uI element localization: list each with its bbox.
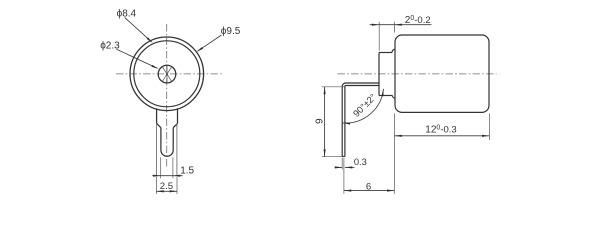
pin rolled section with rounded end: [161, 128, 173, 157]
angle arc 90 deg: [343, 89, 384, 123]
dim 9 line: [324, 87, 326, 157]
fillet neck top to cylinder face: [392, 49, 395, 52]
cylinder body (12 long): [395, 35, 489, 112]
inner circle (dia 8.4): [134, 41, 200, 107]
dim 6 extension line (left, from leg bottom): [343, 158, 345, 194]
outer circle (body, dia 9.5): [130, 37, 204, 111]
dim 2 -0.2 line: [370, 24, 432, 26]
horizontal centerline of front view: [116, 73, 224, 75]
dim 0.3 arrows: [335, 166, 343, 168]
leader dia 8.4: [125, 18, 152, 42]
boss spokes: [166, 73, 168, 75]
pin taper chamfers: [157, 123, 161, 127]
dim 2.5 extension lines: [155, 177, 157, 194]
dim 2 -0.2 extension lines: [378, 22, 380, 51]
svg-text:ϕ8.4: ϕ8.4: [117, 9, 137, 20]
dim 1.5 line: [152, 175, 182, 177]
svg-text:1.5: 1.5: [180, 165, 194, 176]
dim 9 extension lines: [322, 86, 345, 88]
dim 0.3 extension line: [341, 158, 343, 170]
dim 12 -0.3 line: [394, 135, 489, 137]
svg-text:0.3: 0.3: [354, 157, 367, 167]
svg-text:2.5: 2.5: [160, 181, 173, 192]
horizontal centerline of side view: [338, 73, 497, 75]
svg-text:ϕ9.5: ϕ9.5: [221, 26, 241, 37]
svg-text:9: 9: [314, 118, 325, 124]
svg-text:120-0.3: 120-0.3: [425, 125, 456, 136]
vertical centerline of front view: [166, 24, 168, 168]
center boss circle (dia 2.3): [158, 65, 176, 83]
dim 1.5 extension lines: [160, 158, 162, 179]
pin sleeve outline (thin): [157, 124, 177, 176]
dim 12 -0.3 extension lines: [393, 114, 395, 194]
terminal pin stub (wide part at body): [157, 108, 178, 156]
bent terminal bracket: [342, 83, 379, 157]
leader dia 2.3: [117, 49, 158, 68]
svg-text:6: 6: [366, 182, 371, 193]
neck (2 wide): [379, 49, 395, 98]
svg-text:ϕ2.3: ϕ2.3: [100, 40, 120, 51]
leader dia 9.5: [198, 35, 222, 51]
fillet neck bottom to cylinder face: [392, 96, 395, 99]
svg-text:20-0.2: 20-0.2: [405, 15, 431, 26]
dim 2.5 line: [156, 190, 177, 192]
dim 6 line: [344, 190, 395, 192]
